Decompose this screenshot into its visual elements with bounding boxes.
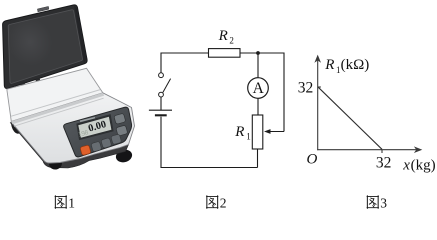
- scale orange button: [80, 145, 91, 156]
- svg-text:32: 32: [376, 155, 392, 172]
- wire top-left horizontal: [161, 53, 209, 73]
- wire R1 bottom: [257, 149, 259, 168]
- svg-text:x: x: [402, 158, 410, 174]
- junction node dot: [256, 51, 260, 55]
- svg-text:2: 2: [220, 195, 227, 210]
- scale lid inner sheen: [3, 13, 57, 70]
- wire switch to battery: [160, 97, 162, 110]
- scale lid (open, dark): [3, 5, 88, 89]
- R1 wiper arrow: [267, 131, 285, 133]
- resistor R1 (slider rheostat body): [252, 115, 262, 149]
- scale body crease line: [14, 98, 104, 126]
- scale control panel (charcoal): [64, 107, 132, 157]
- svg-text:1: 1: [246, 132, 251, 142]
- scale lid hinge bump 1: [20, 82, 25, 86]
- scale lid inner frame: [8, 10, 82, 84]
- svg-text:R: R: [234, 124, 244, 140]
- scale LCD bezel: [76, 114, 113, 140]
- x axis arrowhead: [414, 146, 422, 153]
- svg-text:(kg): (kg): [411, 158, 436, 174]
- y axis arrowhead: [314, 55, 321, 63]
- wire battery to bottom: [160, 117, 162, 168]
- svg-text:32: 32: [298, 79, 314, 96]
- scale gray button 2: [101, 138, 112, 149]
- scale gray button 1: [91, 141, 102, 152]
- wire top-right horizontal to right branch: [240, 53, 284, 132]
- scale dark base band: [10, 123, 128, 168]
- switch blade: [163, 79, 171, 93]
- wire bottom horizontal: [161, 167, 258, 169]
- battery negative plate: [155, 114, 167, 116]
- R1-x descending line: [318, 87, 382, 149]
- scale lid hinge bump 2: [35, 78, 40, 82]
- caption 图1: [55, 196, 67, 209]
- svg-text:R: R: [324, 57, 334, 73]
- caption 图3: [367, 196, 379, 209]
- resistor R2: [209, 49, 241, 58]
- svg-text:3: 3: [380, 195, 387, 210]
- battery positive plate: [149, 109, 172, 111]
- ammeter U1 circle: [248, 78, 269, 99]
- svg-text:O: O: [307, 152, 318, 168]
- scale button column lower: [116, 125, 128, 136]
- scale platform: [7, 68, 103, 121]
- caption 图2: [207, 196, 219, 209]
- scale panel brand strip: [80, 118, 95, 122]
- scale platform front edge band: [11, 93, 104, 125]
- scale body: [11, 93, 134, 163]
- scale rear-left foot: [10, 113, 24, 134]
- svg-text:R: R: [218, 28, 228, 44]
- tick at 32 on y axis: [318, 86, 321, 88]
- scale lid right side face: [74, 6, 86, 64]
- scale platform inner plate line: [11, 90, 100, 117]
- tick at 32 on x axis: [381, 150, 383, 153]
- scale front-right foot: [115, 148, 134, 164]
- scale LCD face: [78, 117, 111, 138]
- scale front-left foot: [48, 156, 64, 171]
- wire ammeter to R1: [257, 98, 259, 115]
- scale gray button 3: [111, 134, 122, 145]
- y axis: [317, 58, 319, 150]
- scale lid latch notch: [37, 6, 49, 11]
- switch S contact circles: [159, 73, 164, 78]
- scale button column upper: [114, 113, 126, 124]
- svg-text:A: A: [253, 80, 265, 97]
- svg-text:(kΩ): (kΩ): [341, 57, 370, 73]
- x axis: [317, 149, 417, 151]
- svg-text:1: 1: [68, 195, 75, 210]
- svg-text:2: 2: [229, 36, 234, 46]
- wire ammeter branch upper: [257, 53, 259, 78]
- scale rear-right foot: [122, 114, 131, 124]
